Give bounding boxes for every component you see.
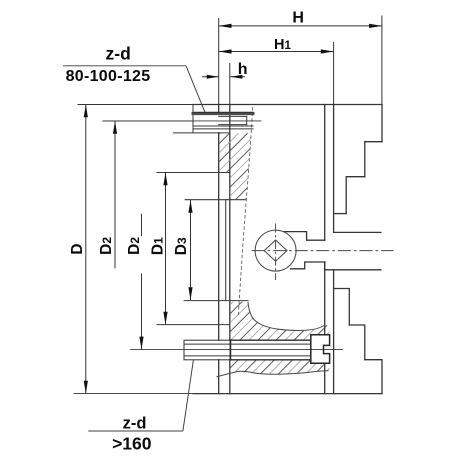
- circle vertical centerline: [275, 224, 277, 281]
- main horizontal centerline: [252, 250, 394, 252]
- recess bottom edge: [157, 324, 230, 326]
- D3 arrow top: [188, 200, 192, 213]
- bolt top edge: [193, 111, 253, 113]
- svg-text:D2: D2: [98, 237, 115, 255]
- h ext line right: [229, 63, 231, 105]
- bolt lower line 1: [193, 125, 253, 127]
- H1 arrow left: [219, 49, 232, 53]
- bottom callout underline: [88, 430, 183, 432]
- D2b dim line lower part: [141, 273, 143, 349]
- D3 dim line: [190, 200, 192, 300]
- bolt thread end: [246, 116, 248, 124]
- key boss top outer: [334, 231, 381, 233]
- h tail right: [230, 76, 245, 78]
- jaw step 1 bottom: [334, 289, 350, 326]
- svg-text:z-d: z-d: [106, 43, 131, 63]
- bolt head left face: [192, 105, 194, 133]
- back plate / body interface: [229, 105, 231, 341]
- D dim line: [85, 105, 87, 394]
- bolt top band: [193, 112, 253, 115]
- bore bottom edge: [184, 300, 248, 302]
- bolt axis: [103, 120, 261, 122]
- upper section hatch: [219, 133, 251, 199]
- svg-text:80-100-125: 80-100-125: [66, 68, 151, 85]
- jaw step 3 bottom: [365, 360, 382, 394]
- jaw outer face top: [381, 105, 383, 142]
- jaw step 2 top: [346, 177, 365, 214]
- bolt hole upper line: [219, 115, 247, 117]
- bolt axis: [131, 349, 343, 351]
- svg-text:D1: D1: [149, 237, 166, 255]
- D3 arrow bottom: [188, 287, 192, 300]
- svg-text:>160: >160: [112, 433, 152, 453]
- svg-text:H: H: [292, 10, 304, 27]
- bolt shaft bottom: [184, 355, 311, 357]
- bolt shaft top: [184, 343, 311, 345]
- H1 ext line right: [333, 42, 335, 105]
- bolt hole bottom: [230, 359, 310, 361]
- D arrow top: [84, 105, 88, 118]
- D2b arrow: [139, 337, 143, 350]
- H arrow left: [219, 24, 232, 28]
- D2b dim line upper part: [141, 214, 143, 236]
- bolt lower line 2: [193, 128, 253, 130]
- bolt head outline: [184, 340, 230, 360]
- body top edge: [193, 104, 382, 106]
- H1 arrow right: [321, 49, 334, 53]
- recess top edge: [157, 172, 229, 174]
- front face inner line bottom 2: [324, 363, 326, 393]
- top callout underline: [63, 65, 186, 67]
- bolt hole lower line: [219, 124, 247, 126]
- body bottom edge: [193, 393, 382, 395]
- front face outer line bottom: [333, 270, 335, 394]
- key boss bottom step: [325, 262, 381, 270]
- svg-text:h: h: [238, 61, 248, 78]
- D1 dim line: [165, 173, 167, 325]
- jaw step 1 top: [334, 213, 347, 215]
- bolt hole top: [230, 339, 310, 341]
- D1 arrow top: [163, 173, 167, 186]
- key boss top inner: [284, 232, 325, 241]
- lower section hatch above bolt: [230, 302, 329, 340]
- H arrow right: [369, 24, 382, 28]
- svg-text:D: D: [69, 243, 86, 254]
- front face inner line bottom: [324, 262, 326, 335]
- front face inner line top: [324, 105, 326, 241]
- h tail left: [202, 76, 219, 78]
- lower section hatch below bolt: [230, 360, 330, 374]
- pinion circle: [255, 230, 296, 271]
- H ext line left: [218, 18, 220, 105]
- back plate rear face: [218, 105, 220, 113]
- D ext bottom: [74, 393, 194, 395]
- bore top edge: [185, 199, 246, 201]
- upper wavy line: [248, 302, 324, 331]
- H1 dim line: [219, 51, 334, 53]
- h arrow left: [207, 75, 219, 79]
- D ext top: [78, 104, 194, 106]
- svg-text:H1: H1: [274, 37, 291, 53]
- D2a ext: [103, 120, 193, 122]
- D2a arrow: [113, 121, 117, 134]
- front face outer line top: [333, 105, 335, 233]
- square socket diamond: [264, 240, 287, 261]
- H dim line: [219, 25, 382, 27]
- bolt head right face: [229, 340, 231, 360]
- svg-text:D2: D2: [126, 237, 143, 255]
- key boss bottom inner: [291, 262, 325, 269]
- lower wavy line: [217, 371, 329, 377]
- jaw step 3 top: [365, 142, 382, 177]
- D1 arrow bottom: [163, 312, 167, 325]
- bolt washer bottom / mounting face line: [173, 132, 229, 134]
- thread engagement C-block: [311, 335, 330, 364]
- D arrow bottom: [84, 381, 88, 394]
- top callout leader: [186, 66, 205, 113]
- svg-text:D3: D3: [173, 237, 190, 255]
- h arrow right: [230, 75, 242, 79]
- bottom callout leader: [183, 360, 194, 431]
- svg-text:z-d: z-d: [123, 415, 147, 433]
- H ext line right: [381, 16, 383, 105]
- jaw step 2 bottom: [349, 325, 365, 360]
- bore front edge: [225, 200, 227, 301]
- D2a dim line: [114, 121, 116, 268]
